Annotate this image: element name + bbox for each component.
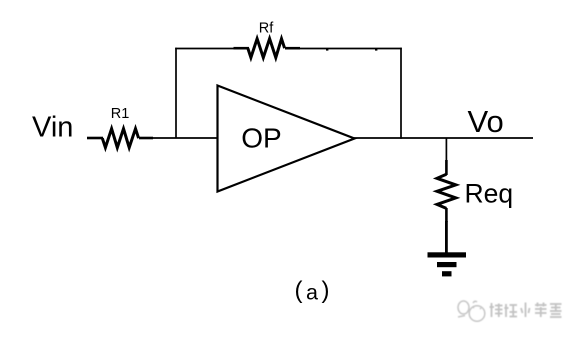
ground <box>428 252 467 276</box>
wire joint nub 1 <box>326 48 328 51</box>
wire feedback top left segment <box>175 48 234 50</box>
label Req <box>465 179 514 209</box>
resistor Req <box>437 174 456 208</box>
wire feedback left vertical <box>175 48 177 138</box>
wire feedback right vertical <box>400 48 402 139</box>
svg-text:R1: R1 <box>111 106 130 122</box>
svg-text:): ) <box>322 277 330 304</box>
svg-text:OP: OP <box>241 123 281 154</box>
wire Req top lead <box>445 138 447 175</box>
node Vo label <box>468 104 504 139</box>
watermark logo icon <box>458 301 485 321</box>
svg-text:a: a <box>306 281 318 305</box>
label Rf <box>259 20 274 36</box>
wire output <box>353 137 533 139</box>
node Vin label <box>32 112 73 144</box>
svg-text:Vin: Vin <box>32 112 73 144</box>
svg-text:Req: Req <box>465 179 514 209</box>
svg-text:(: ( <box>295 277 303 304</box>
resistor Rf <box>234 39 301 58</box>
wire input node to op-amp inverting input <box>152 137 218 139</box>
wire joint nub 2 <box>375 48 377 51</box>
watermark text (stylized CJK strokes) <box>490 303 562 318</box>
wire feedback top right segment <box>299 48 402 50</box>
wire Req to ground <box>445 208 448 253</box>
label R1 <box>111 106 130 122</box>
op-amp U1 <box>218 86 355 192</box>
svg-text:Rf: Rf <box>259 20 274 36</box>
caption (a) <box>295 277 330 305</box>
svg-text:Vo: Vo <box>468 104 504 139</box>
resistor R1 <box>87 129 153 148</box>
